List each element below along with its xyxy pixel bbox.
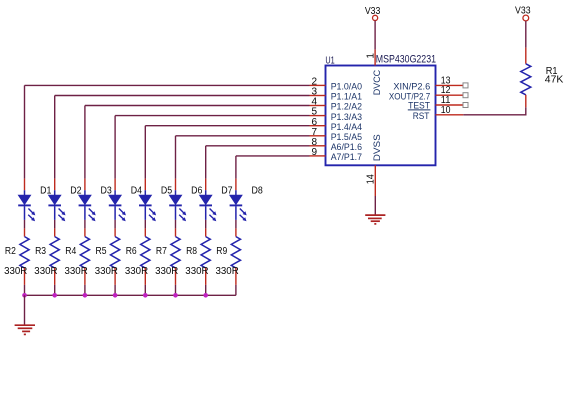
pin 7 stub [310, 135, 326, 137]
wire net P1.0 horizontal [25, 84, 310, 86]
pin 2 stub [310, 84, 326, 86]
junction dot node GND bus [173, 293, 178, 298]
resistor R4 bottom stub [84, 268, 86, 285]
LED D7 anode stub [205, 179, 207, 191]
LED D1 anode stub [24, 179, 26, 191]
pin 4 stub [310, 105, 326, 107]
pin 14 stub [374, 165, 376, 196]
LED D7 [200, 195, 212, 204]
svg-text:A6/P1.6: A6/P1.6 [331, 142, 362, 152]
wire R4 to ground bus [84, 285, 86, 295]
resistor R1 top stub [525, 48, 527, 64]
wire net P1.2 vertical [84, 106, 86, 179]
wire V33 to pin1 [374, 21, 376, 50]
svg-text:V33: V33 [515, 6, 531, 17]
wire bus to ground [24, 295, 26, 325]
resistor R9 top stub [235, 228, 237, 236]
wire net P1.2 horizontal [85, 105, 310, 107]
svg-text:D6: D6 [191, 185, 203, 196]
svg-text:RST: RST [413, 111, 430, 121]
svg-text:330R: 330R [185, 266, 208, 277]
LED D3 pin line [84, 190, 86, 195]
svg-text:330R: 330R [125, 266, 148, 277]
LED D2 [49, 195, 61, 204]
wire net P1.1 horizontal [55, 95, 310, 97]
resistor R3 [50, 237, 59, 268]
svg-text:R5: R5 [96, 246, 107, 257]
wire net P1.3 horizontal [115, 115, 309, 117]
resistor R1 bottom stub [525, 95, 527, 108]
IC U1 MSP430G2231 body [326, 66, 436, 166]
wire net P1.6 horizontal [206, 145, 310, 147]
resistor R4 [80, 237, 89, 268]
svg-text:R2: R2 [5, 246, 16, 257]
pin 3 stub [310, 95, 326, 97]
resistor R2 bottom stub [24, 268, 26, 285]
wire net P1.5 horizontal [176, 135, 310, 137]
svg-text:R4: R4 [65, 246, 76, 257]
LED D1 [19, 195, 31, 204]
LED D3 cathode line [84, 206, 86, 220]
LED D2 anode stub [54, 179, 56, 191]
svg-text:D5: D5 [161, 185, 173, 196]
svg-text:U1: U1 [325, 56, 335, 67]
svg-text:P1.3/A3: P1.3/A3 [331, 112, 362, 122]
power symbol V33 (DVCC) [373, 15, 378, 20]
resistor R7 top stub [175, 228, 177, 236]
svg-text:TEST: TEST [408, 100, 430, 110]
LED D1 cathode line [24, 206, 26, 220]
pin 6 stub [310, 125, 326, 127]
LED D6 cathode line [175, 206, 177, 220]
LED D7 pin line [205, 190, 207, 195]
pin 13 stub [436, 84, 464, 86]
svg-text:P1.1/A1: P1.1/A1 [331, 92, 362, 102]
wire LED D7 to R8 [205, 220, 207, 229]
resistor R7 bottom stub [175, 268, 177, 285]
svg-text:A7/P1.7: A7/P1.7 [331, 152, 362, 162]
wire R5 to ground bus [114, 285, 116, 295]
svg-text:330R: 330R [95, 266, 118, 277]
wire net P1.7 horizontal [236, 155, 310, 157]
pin 12 stub [436, 94, 464, 96]
wire V33 to R1 [525, 21, 527, 48]
svg-text:XIN/P2.6: XIN/P2.6 [393, 82, 430, 92]
resistor R8 [201, 237, 210, 268]
svg-text:330R: 330R [65, 266, 88, 277]
svg-text:14: 14 [366, 174, 377, 184]
pin 5 stub [310, 115, 326, 117]
LED D5 anode stub [144, 179, 146, 191]
power symbol V33 (RST pull-up) [523, 15, 529, 21]
wire net P1.7 vertical [235, 156, 237, 179]
resistor R9 [231, 237, 240, 268]
LED D2 pin line [54, 190, 56, 195]
LED D8 anode stub [235, 179, 237, 191]
svg-text:R6: R6 [126, 246, 137, 257]
wire R2 to ground bus [24, 285, 26, 295]
svg-text:R9: R9 [216, 246, 227, 257]
LED D1 pin line [24, 190, 26, 195]
svg-text:9: 9 [311, 147, 317, 158]
resistor R7 [171, 237, 180, 268]
wire net P1.4 horizontal [145, 125, 309, 127]
svg-text:330R: 330R [4, 266, 27, 277]
LED D4 [109, 195, 121, 204]
ground (DVSS) [365, 214, 385, 216]
wire R3 to ground bus [54, 285, 56, 295]
wire net P1.1 vertical [54, 96, 56, 179]
junction dot node GND bus [22, 293, 27, 298]
wire LED D2 to R3 [54, 220, 56, 229]
wire net P1.5 vertical [175, 136, 177, 179]
pin 10 stub [436, 114, 464, 116]
svg-text:P1.4/A4: P1.4/A4 [331, 122, 362, 132]
junction dot node GND bus [203, 293, 208, 298]
resistor R6 top stub [144, 228, 146, 236]
LED D6 [170, 195, 182, 204]
svg-text:P1.0/A0: P1.0/A0 [331, 82, 362, 92]
junction dot node GND bus [83, 293, 88, 298]
ground (LED bus) [15, 324, 35, 326]
resistor R3 top stub [54, 228, 56, 236]
LED D3 [79, 195, 91, 204]
wire LED D8 to R9 [235, 220, 237, 229]
svg-text:10: 10 [441, 105, 451, 116]
LED D5 cathode line [144, 206, 146, 220]
junction dot node GND bus [113, 293, 118, 298]
svg-text:V33: V33 [365, 6, 381, 17]
wire R8 to ground bus [205, 285, 207, 295]
LED D5 [139, 195, 151, 204]
no-connect square pin 11 [463, 103, 468, 108]
LED D4 anode stub [114, 179, 116, 191]
resistor R2 [20, 237, 29, 268]
svg-text:R3: R3 [35, 246, 46, 257]
wire net P1.4 vertical [144, 126, 146, 179]
wire net P1.0 vertical [24, 85, 26, 178]
LED D6 pin line [175, 190, 177, 195]
resistor R8 bottom stub [205, 268, 207, 285]
pin 9 stub [310, 155, 326, 157]
no-connect square pin 12 [463, 93, 468, 98]
svg-text:D7: D7 [221, 185, 233, 196]
LED D2 cathode line [54, 206, 56, 220]
LED D4 pin line [114, 190, 116, 195]
wire LED D6 to R7 [175, 220, 177, 229]
LED D6 anode stub [175, 179, 177, 191]
svg-text:D1: D1 [40, 185, 52, 196]
LED D8 [230, 195, 242, 204]
wire R9 to ground bus [235, 285, 237, 295]
resistor R5 [111, 237, 120, 268]
LED D3 anode stub [84, 179, 86, 191]
LED D8 pin line [235, 190, 237, 195]
wire R7 to ground bus [175, 285, 177, 295]
svg-text:P1.5/A5: P1.5/A5 [331, 132, 362, 142]
no-connect square pin 13 [463, 83, 468, 88]
resistor R8 top stub [205, 228, 207, 236]
pin 11 stub [436, 104, 464, 106]
svg-text:D3: D3 [101, 185, 113, 196]
pin 1 stub [374, 49, 376, 65]
wire R1 to RST [525, 107, 527, 115]
wire LED D3 to R4 [84, 220, 86, 229]
LED D5 pin line [144, 190, 146, 195]
svg-text:P1.2/A2: P1.2/A2 [331, 102, 362, 112]
svg-text:MSP430G2231: MSP430G2231 [376, 54, 436, 66]
svg-text:R8: R8 [186, 246, 197, 257]
resistor R3 bottom stub [54, 268, 56, 285]
resistor R6 bottom stub [144, 268, 146, 285]
svg-text:DVSS: DVSS [372, 134, 382, 161]
svg-text:D2: D2 [70, 185, 82, 196]
wire R6 to ground bus [144, 285, 146, 295]
svg-text:330R: 330R [216, 266, 239, 277]
resistor R5 top stub [114, 228, 116, 236]
svg-text:DVCC: DVCC [372, 69, 382, 95]
svg-text:330R: 330R [34, 266, 57, 277]
resistor R4 top stub [84, 228, 86, 236]
resistor R6 [141, 237, 150, 268]
pin 8 stub [310, 145, 326, 147]
resistor R2 top stub [24, 228, 26, 236]
wire ground bus [25, 294, 236, 296]
resistor R9 bottom stub [235, 268, 237, 285]
svg-text:D4: D4 [131, 185, 143, 196]
LED D7 cathode line [205, 206, 207, 220]
wire LED D5 to R6 [144, 220, 146, 229]
svg-text:1: 1 [365, 53, 376, 59]
svg-text:47K: 47K [545, 75, 564, 86]
LED D4 cathode line [114, 206, 116, 220]
svg-text:330R: 330R [155, 266, 178, 277]
wire pin14 to ground [374, 196, 376, 215]
junction dot node GND bus [52, 293, 57, 298]
wire LED D1 to R2 [24, 220, 26, 229]
junction dot node GND bus [143, 293, 148, 298]
resistor R1 [521, 64, 531, 95]
wire LED D4 to R5 [114, 220, 116, 229]
LED D8 cathode line [235, 206, 237, 220]
wire net P1.6 vertical [205, 146, 207, 179]
resistor R5 bottom stub [114, 268, 116, 285]
svg-text:D8: D8 [252, 185, 264, 196]
svg-text:R7: R7 [156, 246, 167, 257]
wire net P1.3 vertical [114, 116, 116, 179]
